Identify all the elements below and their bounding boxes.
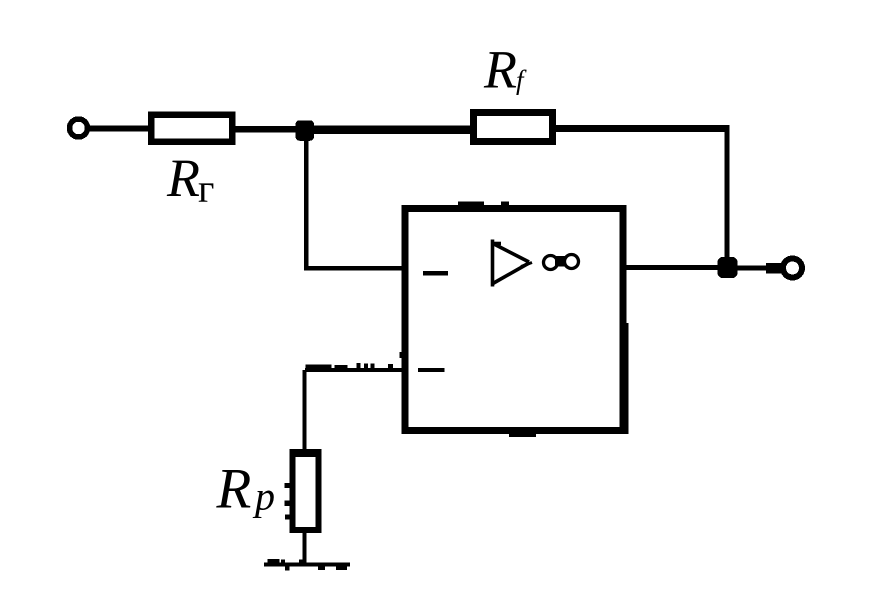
- svg-text:R: R: [483, 40, 517, 100]
- svg-text:p: p: [252, 474, 275, 519]
- svg-text:f: f: [516, 65, 527, 95]
- svg-text:R: R: [166, 148, 200, 208]
- svg-text:г: г: [198, 166, 214, 211]
- svg-text:R: R: [216, 458, 252, 521]
